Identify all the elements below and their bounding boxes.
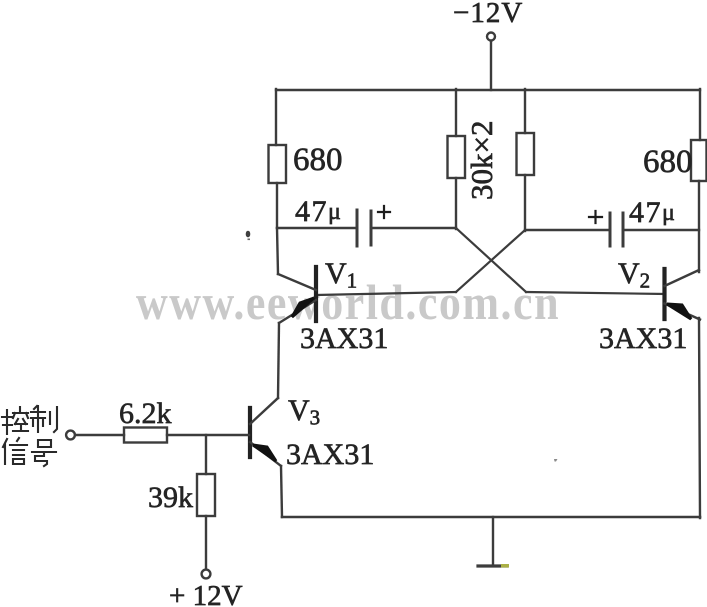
resistor 39k [148,474,215,516]
svg-text:+ 12V: + 12V [169,580,243,607]
label 控制 control [2,407,28,434]
svg-text:3AX31: 3AX31 [300,322,388,355]
transistor V3 [250,394,374,471]
wire 30k left bottom [455,178,457,229]
wire V1 emitter down to V3 collector [278,323,279,398]
transistor V2 [599,257,700,355]
capacitor C1 47u left [277,195,456,246]
label 号 [32,440,56,466]
resistor 680 right [643,140,707,181]
wire 30k right bottom [524,175,526,231]
wire terminal to R 6.2k [75,434,124,436]
svg-text:47μ: 47μ [629,196,676,229]
wire bottom rail [282,516,700,519]
svg-text:V1: V1 [325,257,357,293]
svg-text:3AX31: 3AX31 [599,322,687,355]
svg-text:39k: 39k [148,481,193,514]
label 制 [31,406,57,432]
wire cross-coupling diagonal right-to-left [456,230,525,292]
svg-text:3AX31: 3AX31 [286,438,374,471]
wire left rail top to R 680 left [275,89,277,145]
ground [478,517,509,568]
svg-text:6.2k: 6.2k [119,397,172,430]
capacitor C2 47u right [525,196,699,246]
resistor 6.2k [119,397,172,443]
power terminal -12V [453,0,523,41]
wire R680 left to cap node [276,183,278,228]
wire base V2 [526,292,665,294]
wire right rail top to R 680 right [699,89,701,140]
svg-text:680: 680 [293,142,343,178]
watermark www.eeworld.com.cn [136,276,560,331]
resistor 680 left [269,142,343,183]
terminal +12V [169,570,243,607]
speck near cap [246,231,251,240]
svg-text:47μ: 47μ [295,195,342,228]
wire 30k right top [524,89,526,133]
svg-text:V3: V3 [288,394,320,430]
svg-text:−12V: −12V [453,0,523,29]
transistor V1 [278,257,388,355]
svg-text:680: 680 [643,144,693,180]
wire base V1 [317,292,456,295]
resistor 30k left [448,136,466,178]
value label 30k x 2 [464,121,499,200]
speck right-middle [554,459,558,462]
wire top rail [276,89,700,91]
wire power to top rail [490,41,492,90]
label 信 signal [3,438,27,464]
wire R39k to +12V terminal [205,516,207,569]
wire cap node to V1 collector [277,228,278,274]
wire R680 right to cap node [698,181,700,272]
wire cross-coupling diagonal left-to-right [456,228,526,292]
resistor 30k right [517,133,535,175]
wire 30k left top [455,89,457,136]
wire V3 emitter to bottom rail [281,466,282,517]
control terminal [66,431,75,440]
wire R6.2k to V3 base [167,434,249,436]
wire V2 emitter to bottom rail [699,318,700,518]
svg-text:30k×2: 30k×2 [464,121,499,200]
wire junction to R 39k [205,435,207,474]
svg-text:V2: V2 [618,257,650,293]
